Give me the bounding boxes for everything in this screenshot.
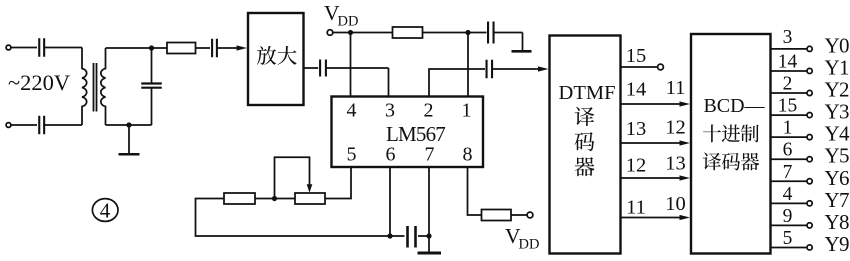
terminal: AC input top <box>6 45 11 50</box>
wire <box>418 235 429 237</box>
wire DTMF pin 13 to BCD pin 12 <box>621 142 684 144</box>
svg-text:Y5: Y5 <box>825 144 849 168</box>
capacitor C6 (output filter) <box>488 22 494 44</box>
svg-text:4: 4 <box>347 100 357 122</box>
label 放大 <box>257 46 276 65</box>
capacitor C7 (to DTMF) <box>487 60 493 79</box>
output Y4 (pin 1) <box>771 136 807 138</box>
svg-text:Y0: Y0 <box>825 33 849 57</box>
wire <box>106 124 152 126</box>
wire <box>468 32 487 34</box>
transformer core line 1 <box>93 63 95 112</box>
label 十进制 <box>703 124 721 142</box>
IC U4 BCD-decimal decoder box <box>691 34 771 254</box>
wire <box>255 198 295 200</box>
IC U3 DTMF decoder box <box>550 36 621 254</box>
resistor R1 <box>167 43 196 54</box>
ground (top right) <box>512 50 532 53</box>
svg-text:6: 6 <box>386 144 396 166</box>
transformer core line 2 <box>96 63 98 112</box>
terminal VDD supply <box>327 30 333 36</box>
svg-text:15: 15 <box>778 96 798 117</box>
wire to LM567 pin 3 <box>388 68 390 97</box>
wire LM567 pin 6 down <box>389 167 391 236</box>
amplifier block 放大 U1 <box>248 13 304 105</box>
DTMF pin 15 stub <box>621 66 658 68</box>
node: pin 6 junction <box>387 233 392 238</box>
svg-text:~220V: ~220V <box>8 70 70 95</box>
wire timing loop to pin 6 <box>196 199 391 237</box>
output Y2 (pin 2) <box>771 92 807 94</box>
svg-text:7: 7 <box>783 162 793 183</box>
wire <box>11 47 37 49</box>
terminal pin 15 <box>658 64 664 70</box>
wire <box>106 47 168 49</box>
wire <box>522 33 524 51</box>
resistor R4 (pin 8 pull-up) <box>482 210 512 221</box>
capacitor C1 (AC coupling top) <box>39 38 44 57</box>
svg-text:Y3: Y3 <box>825 100 849 124</box>
ground (pin 7) <box>418 252 442 255</box>
svg-text:11: 11 <box>626 197 646 219</box>
svg-text:13: 13 <box>665 153 686 175</box>
svg-text:1: 1 <box>462 100 472 122</box>
svg-text:Y1: Y1 <box>825 56 849 80</box>
svg-text:DD: DD <box>519 237 540 253</box>
svg-text:2: 2 <box>783 74 793 95</box>
svg-text:10: 10 <box>665 193 686 215</box>
svg-text:4: 4 <box>100 199 111 223</box>
resistor R3 <box>224 193 255 204</box>
output Y6 (pin 7) <box>771 180 807 182</box>
terminal VDD (pin 8) <box>527 212 533 218</box>
capacitor C8 (timing) <box>408 226 416 248</box>
wire <box>492 68 541 70</box>
wire <box>217 47 240 49</box>
svg-text:DTMF: DTMF <box>559 82 616 104</box>
svg-text:14: 14 <box>778 51 798 72</box>
svg-text:5: 5 <box>347 144 357 166</box>
wire DTMF pin 11 to BCD pin 10 <box>621 217 684 219</box>
svg-text:Y6: Y6 <box>825 166 849 190</box>
svg-text:BCD—: BCD— <box>703 95 765 117</box>
output Y7 (pin 4) <box>771 202 807 204</box>
svg-text:3: 3 <box>783 27 793 48</box>
capacitor C4 (series) <box>212 39 217 58</box>
label 译码器 (vertical) <box>575 107 595 126</box>
node: pin1 junction <box>465 30 470 35</box>
node: wiper tie junction <box>272 196 277 201</box>
wire <box>11 124 37 126</box>
transformer T1 secondary winding <box>101 48 106 125</box>
wire <box>45 47 83 49</box>
wire DTMF pin 12 to BCD pin 13 <box>621 177 684 179</box>
svg-text:Y8: Y8 <box>825 210 849 234</box>
wiper arrow <box>307 184 313 193</box>
output Y1 (pin 14) <box>771 70 807 72</box>
potentiometer wiper arm <box>275 157 310 198</box>
svg-text:3: 3 <box>385 100 395 122</box>
wire <box>351 32 393 34</box>
wire <box>45 124 83 126</box>
svg-text:Y7: Y7 <box>825 188 849 212</box>
label 译码器 (BCD box) <box>703 153 721 171</box>
node: VDD junction <box>348 30 353 35</box>
wire <box>494 32 523 34</box>
svg-text:12: 12 <box>665 117 686 139</box>
svg-text:Y2: Y2 <box>825 78 849 102</box>
output Y0 (pin 3) <box>771 48 807 50</box>
wire <box>423 32 469 34</box>
svg-text:DD: DD <box>338 14 359 30</box>
svg-text:15: 15 <box>626 45 647 67</box>
wire LM567 pin 7 down <box>428 167 430 253</box>
arrow into DTMF decoder <box>538 66 549 71</box>
wire <box>333 32 351 34</box>
wire pin 8 to VDD resistor <box>468 167 482 215</box>
wire junction to LM567 pin 1 <box>467 33 469 97</box>
svg-text:LM567: LM567 <box>386 122 445 146</box>
arrow into amplifier <box>237 45 248 50</box>
wire VDD to pin 4 <box>350 33 352 97</box>
figure number 4 (circled) <box>92 199 118 223</box>
node: secondary top junction <box>149 45 154 50</box>
ground <box>119 125 140 154</box>
svg-text:7: 7 <box>425 144 435 166</box>
svg-text:2: 2 <box>424 100 434 122</box>
svg-text:11: 11 <box>666 77 686 99</box>
transformer T1 <box>82 48 87 126</box>
svg-text:12: 12 <box>626 155 647 177</box>
wire <box>326 67 389 69</box>
output Y8 (pin 9) <box>771 224 807 226</box>
node: secondary bottom junction <box>126 122 131 127</box>
wire DTMF pin 14 to BCD pin 11 <box>621 103 684 105</box>
capacitor C2 (AC coupling bottom) <box>39 116 44 135</box>
svg-text:6: 6 <box>783 140 793 161</box>
svg-text:Y9: Y9 <box>825 232 849 256</box>
terminal: AC input bottom <box>6 123 11 128</box>
wire <box>511 214 527 216</box>
capacitor C3 (across secondary) <box>151 48 153 83</box>
wire <box>196 47 211 49</box>
IC U2 LM567 tone decoder <box>332 97 484 168</box>
wire LM567 pin 2 to DTMF input <box>429 69 485 97</box>
resistor R2 <box>393 27 423 38</box>
wire pin 5 to timing network <box>325 167 351 199</box>
svg-text:8: 8 <box>463 144 473 166</box>
svg-text:1: 1 <box>783 118 793 139</box>
svg-text:Y4: Y4 <box>825 122 850 146</box>
svg-text:9: 9 <box>783 206 793 227</box>
svg-text:5: 5 <box>783 228 793 249</box>
node: pin 7 junction <box>426 233 431 238</box>
output Y9 (pin 5) <box>771 246 807 248</box>
output Y3 (pin 15) <box>771 114 807 116</box>
potentiometer RP1 body <box>295 193 325 204</box>
svg-text:14: 14 <box>626 79 647 101</box>
wire <box>304 67 319 69</box>
wire <box>390 235 405 237</box>
output Y5 (pin 6) <box>771 158 807 160</box>
svg-text:4: 4 <box>783 184 793 205</box>
capacitor C5 (amp output coupling) <box>320 60 326 77</box>
svg-text:13: 13 <box>626 118 647 140</box>
